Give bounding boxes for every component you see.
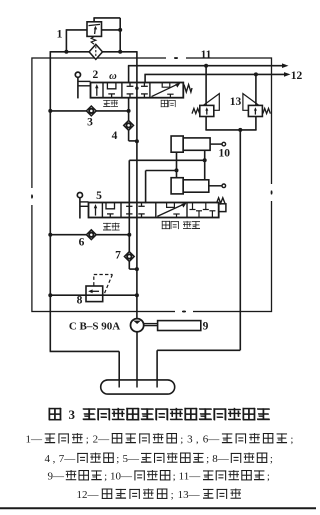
wire: tank return line left vertical — [49, 51, 51, 351]
svg-text:5: 5 — [96, 190, 102, 202]
wire: pump pressure line P vertical — [136, 51, 138, 319]
node: junction tank line at safety valve — [48, 293, 52, 297]
wire: bypass valve right branch — [102, 29, 121, 31]
svg-text:3: 3 — [87, 117, 93, 129]
svg-text:3: 3 — [69, 407, 76, 422]
svg-text:2: 2 — [93, 69, 99, 81]
label xiajiang (lower) valve 2 — [161, 100, 168, 107]
oil tank — [101, 380, 175, 394]
svg-text:12: 12 — [291, 70, 303, 82]
label xiajiang (lower) valve 5 — [162, 221, 170, 229]
label fudong (float) valve 5 — [183, 221, 191, 229]
svg-text:12—: 12— — [77, 489, 100, 501]
valve 2 section 2 U + blocked port — [107, 83, 116, 89]
valve 5 section 3 blocked ports — [126, 205, 132, 207]
bulldozer cylinder 10 upper — [171, 136, 183, 152]
wire: bypass valve top branch — [93, 18, 95, 23]
spring of left overload valve — [192, 108, 200, 113]
wire: tank return bottom to tank left pipe — [50, 350, 120, 352]
bottom rule — [0, 507, 316, 509]
svg-text:5—: 5— — [122, 453, 140, 465]
wire: bypass valve left branch to node with filter line — [66, 29, 87, 31]
wire: main filter line — [50, 51, 137, 53]
svg-text:2—: 2— — [93, 434, 111, 446]
valve 5 section 5 float position — [192, 203, 194, 210]
wire: cylinder cap-side vertical link — [176, 152, 178, 178]
svg-text:13: 13 — [230, 96, 242, 108]
svg-text:;: ; — [171, 489, 174, 501]
wire: suction line through check valve 6 — [50, 234, 129, 236]
svg-text:11—: 11— — [179, 471, 202, 483]
wire: right return line down to tank — [239, 130, 241, 350]
lever handle of valve 2 — [75, 72, 80, 77]
svg-text:7—: 7— — [59, 453, 77, 465]
valve 5 detent extension — [219, 204, 226, 212]
wire: valve 5 port B riser — [145, 171, 147, 204]
wire: pump outlet down to tank — [136, 332, 138, 388]
safety valve 8 body — [86, 286, 103, 302]
overload valve 13 left body — [200, 105, 214, 116]
svg-text:;: ; — [267, 471, 270, 483]
svg-text:10: 10 — [218, 148, 230, 160]
valve 2 section 3 blocked ports — [129, 83, 131, 87]
svg-text:ω: ω — [109, 71, 117, 82]
svg-text:8—: 8— — [212, 453, 230, 465]
svg-text:;: ; — [104, 471, 107, 483]
figure caption title — [49, 408, 61, 420]
node: junction check valve 4 to P line — [135, 139, 139, 143]
svg-text:9—: 9— — [48, 471, 66, 483]
svg-text:9: 9 — [203, 321, 209, 333]
wire: bulldozer cylinder line B (cap side) — [146, 170, 177, 172]
svg-text:7: 7 — [115, 250, 121, 262]
wire: bulldozer cylinder line A (rod side) — [129, 159, 204, 161]
shaft to transfer case — [144, 323, 158, 325]
gear pump CB-S90A — [131, 319, 144, 332]
node: junction overload header / right return — [238, 128, 242, 132]
node: junction rod-side link — [203, 158, 207, 162]
check valve 4 — [124, 121, 134, 131]
svg-text:;: ; — [206, 453, 209, 465]
node: junction check valve 7 to P line — [135, 267, 139, 271]
valve 5 section 2 U + blocked port — [106, 203, 115, 209]
wire: valve 2 port A down to check valve 4 — [128, 97, 130, 121]
wire: check valve 7 outlet jog to P line — [128, 261, 130, 269]
wire: overload valve 13 right riser on line 12 — [255, 74, 257, 105]
bypass relief valve above filter — [87, 22, 102, 37]
wire: line 11 riser from valve 2 port A — [128, 66, 130, 84]
node: junction line 11 / overload valve — [204, 64, 208, 68]
svg-text:6—: 6— — [203, 434, 221, 446]
check valve 6 (suction) — [86, 230, 96, 240]
valve 5 section 4 crossed arrow (lower) — [157, 204, 185, 217]
node: P junction inside valve 2 — [135, 87, 138, 90]
wire 11: to ripper cylinder head — [128, 65, 283, 67]
pilot triangle of left overload valve — [203, 94, 219, 111]
label shangsheng (raise) valve 2 — [103, 100, 110, 107]
svg-text:;: ; — [290, 434, 293, 446]
spring of valve 2 (W) — [184, 85, 192, 92]
svg-text:;: ; — [270, 453, 273, 465]
ripper directional valve 2 body — [91, 83, 184, 98]
svg-text:C B–S 90A: C B–S 90A — [69, 321, 120, 333]
svg-text:4: 4 — [112, 130, 118, 142]
svg-text:8: 8 — [77, 295, 83, 307]
label shangsheng (raise) valve 5 — [103, 223, 111, 231]
node: junction left of filter — [64, 50, 68, 54]
valve 2 section 1 arrow (raise) — [96, 86, 98, 96]
check valve 3 (suction) — [86, 106, 96, 116]
wire: cylinder rod-side vertical link — [204, 150, 206, 180]
wire: check valve 4 outlet jog to P line — [128, 130, 130, 141]
svg-text:;: ; — [180, 434, 183, 446]
svg-text:1: 1 — [57, 29, 63, 41]
valve 2 section 4 crossed arrow (lower) — [152, 84, 179, 97]
node: junction cap-side link — [175, 168, 179, 172]
spring of right overload valve — [263, 108, 271, 113]
spring of valve 5 (W) — [217, 198, 225, 203]
wire: valve 5 port A vertical (up to cyl line, down to check valve 7) — [128, 160, 130, 252]
svg-text:,: , — [196, 434, 199, 446]
wire: safety valve line — [50, 294, 137, 296]
spring of bypass valve — [91, 37, 96, 45]
transfer case 9 box — [158, 321, 201, 331]
node: junction right of filter — [118, 50, 122, 54]
wire 12: riser from valve 2 port B — [144, 74, 146, 83]
tank pipe stubs — [118, 381, 120, 388]
svg-text:13—: 13— — [178, 489, 201, 501]
svg-text:1—: 1— — [26, 434, 44, 446]
node: junction P line at safety valve — [135, 293, 139, 297]
valve 5 section 1 arrow (raise) — [95, 206, 97, 216]
wire 12: to ripper cylinder rod — [144, 73, 284, 75]
node: junction valve5 A line at suction 6 — [127, 233, 131, 237]
wire: overload valves bottom header — [205, 116, 207, 130]
svg-text:;: ; — [116, 453, 119, 465]
node: junction line 12 / overload valve — [254, 72, 258, 76]
node: junction tank line at suction 6 — [48, 233, 52, 237]
svg-text:4: 4 — [45, 453, 51, 465]
bulldozer directional valve 5 body — [89, 203, 219, 218]
node: junction bypass right top — [118, 28, 122, 32]
svg-text:10—: 10— — [110, 471, 133, 483]
svg-text:3: 3 — [187, 434, 193, 446]
svg-text:;: ; — [173, 471, 176, 483]
hydraulic control box 11 boundary — [32, 58, 272, 312]
svg-text:6: 6 — [79, 237, 85, 249]
svg-text:11: 11 — [201, 49, 212, 61]
check valve 7 — [124, 252, 134, 262]
pilot triangle of right overload valve — [243, 94, 259, 111]
bulldozer cylinder 10 lower — [171, 178, 183, 194]
wire: overload valve 13 left riser on line 11 — [205, 66, 207, 106]
overload valve 13 right body — [248, 105, 262, 116]
pilot dashed line of safety valve 8 — [93, 275, 95, 286]
filter 1 (diamond with dashed mesh) — [89, 44, 102, 59]
svg-text:,: , — [53, 453, 56, 465]
node: junction on tank line at suction 3 — [48, 109, 52, 113]
lever handle of valve 5 — [77, 193, 82, 198]
svg-text:;: ; — [86, 434, 89, 446]
wire: suction line through check valve 3 — [50, 110, 128, 112]
node: junction suction line / valve2 A — [127, 109, 131, 113]
